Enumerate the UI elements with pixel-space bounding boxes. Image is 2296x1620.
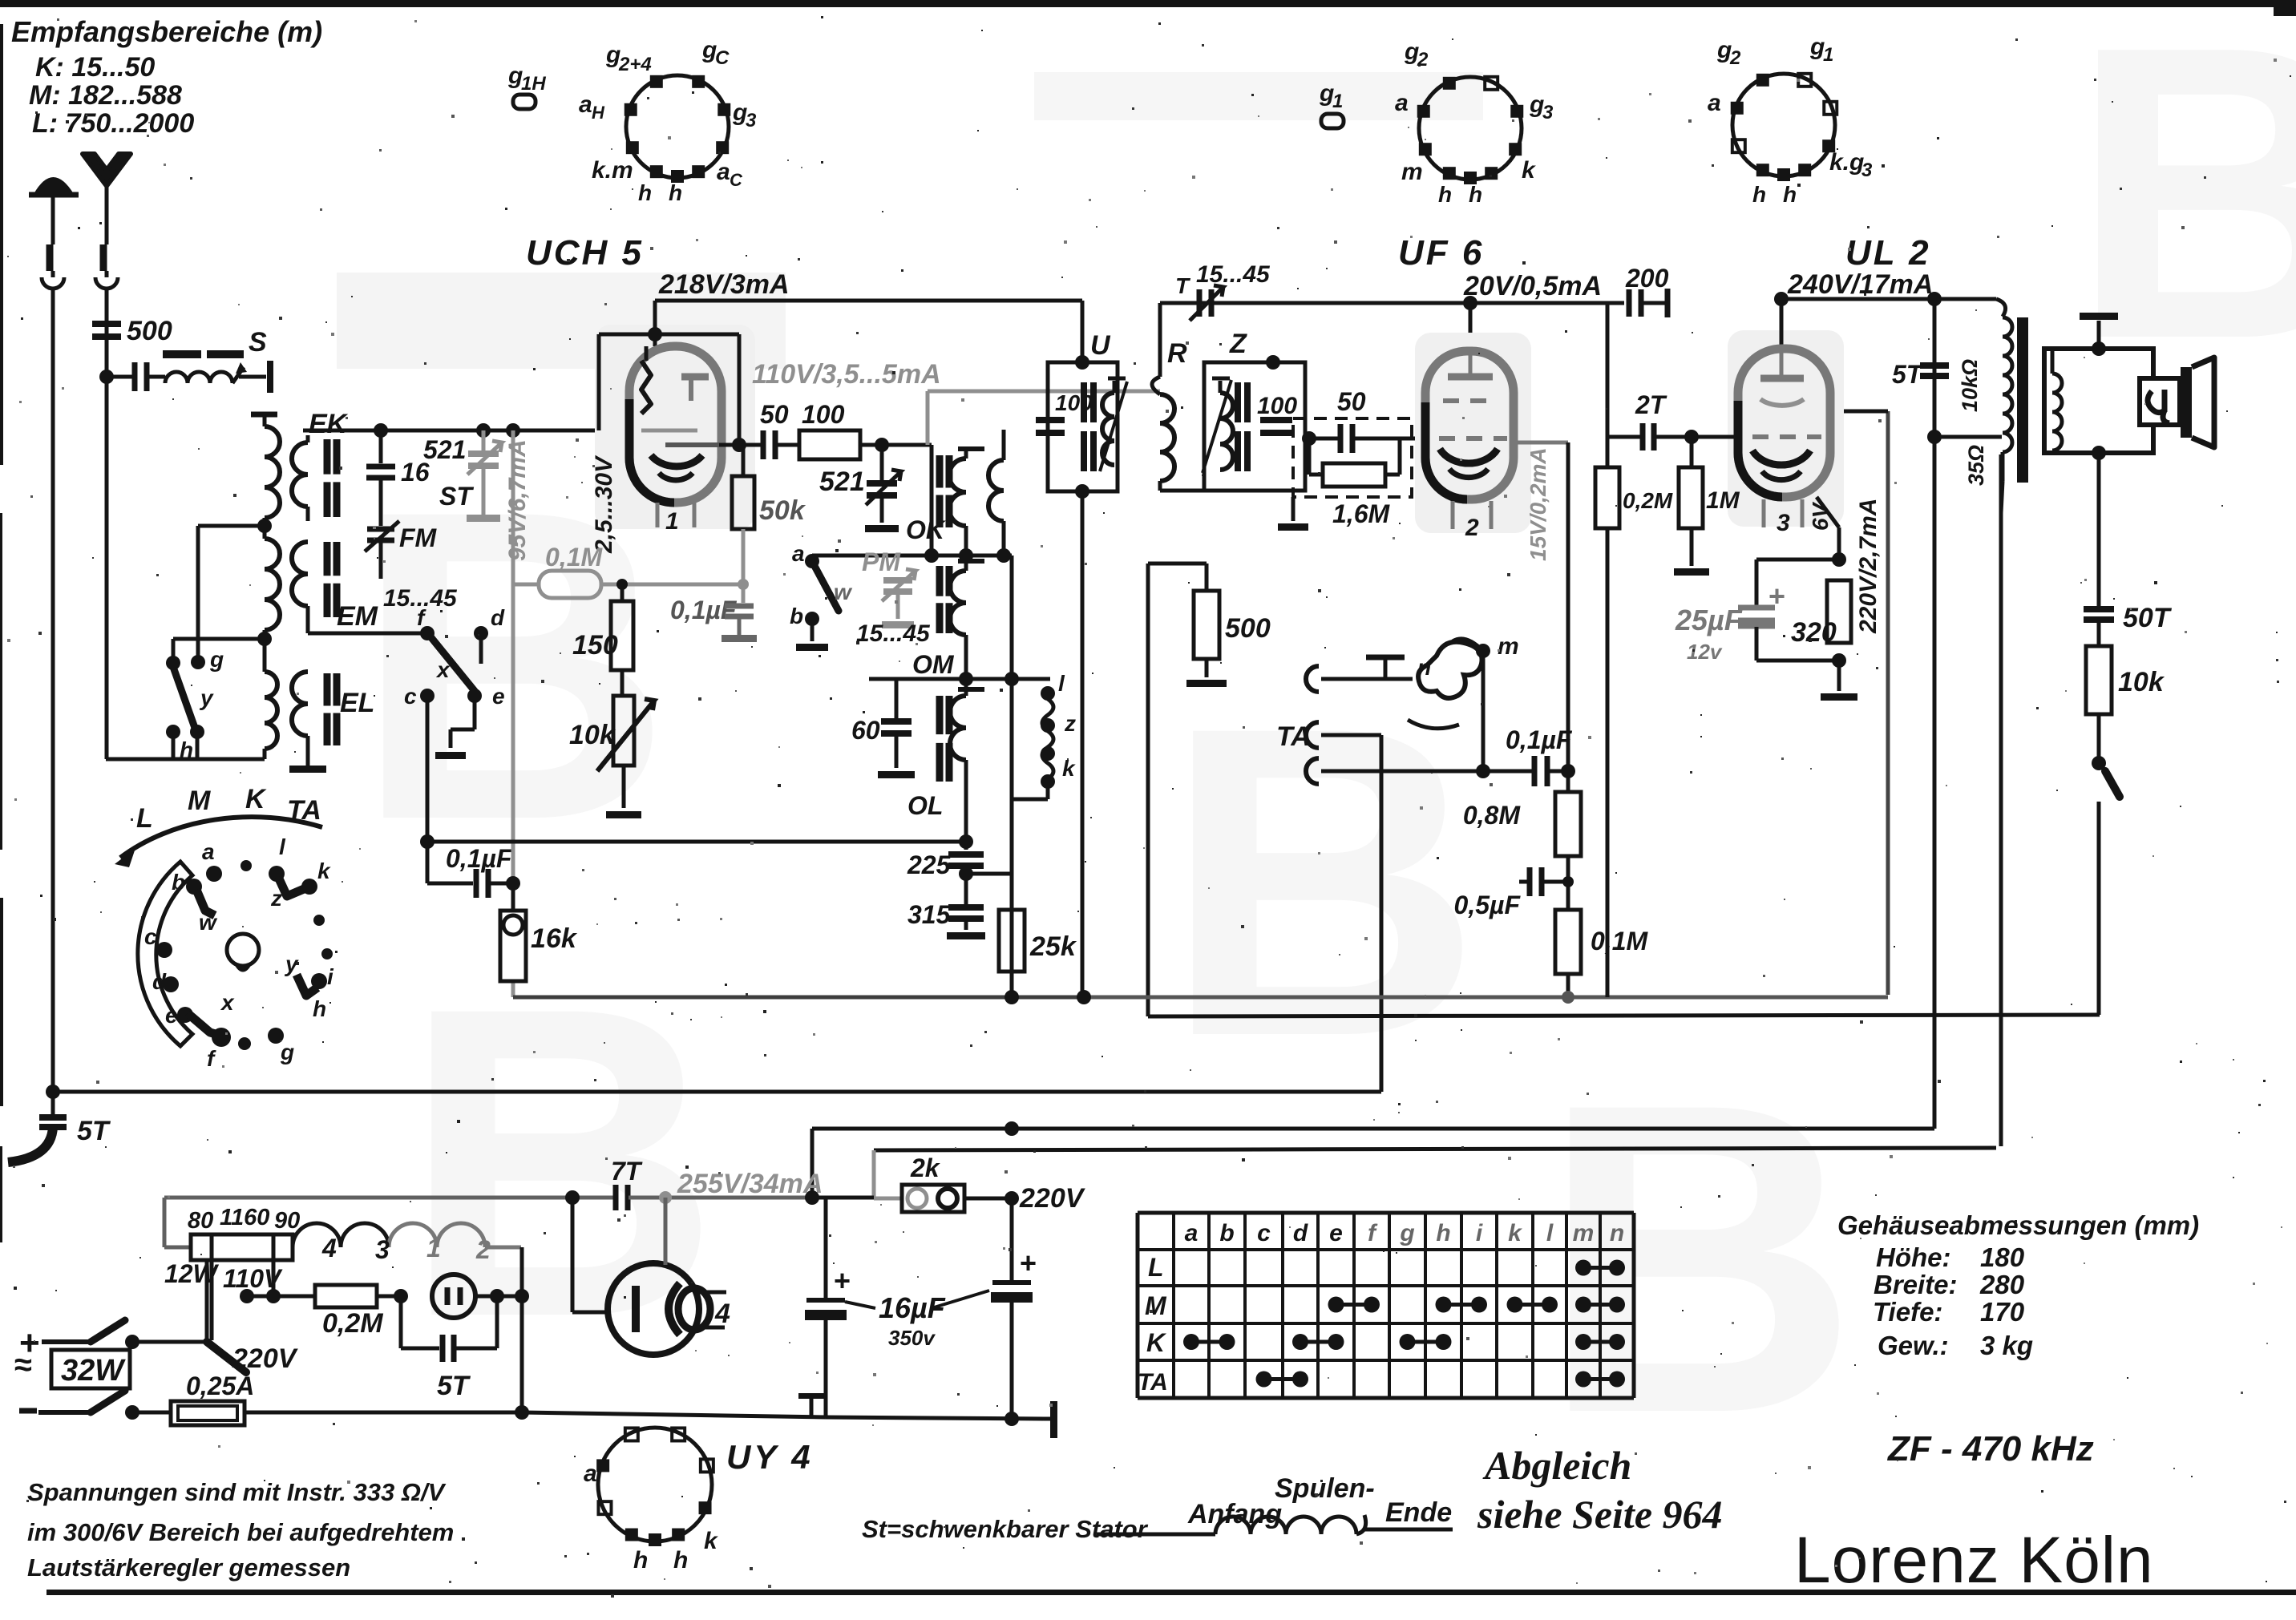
svg-text:k: k xyxy=(317,858,331,883)
svg-text:EL: EL xyxy=(340,688,374,718)
svg-text:b: b xyxy=(1219,1220,1234,1246)
svg-text:a: a xyxy=(717,159,730,185)
svg-text:UY 4: UY 4 xyxy=(726,1438,814,1476)
svg-text:95V/6,7mA: 95V/6,7mA xyxy=(504,439,531,561)
svg-text:M: 182...588: M: 182...588 xyxy=(29,80,182,111)
svg-text:Spannungen sind mit Instr.: Spannungen sind mit Instr. 333 Ω/V xyxy=(27,1478,447,1506)
svg-text:ZF - 470 kHz: ZF - 470 kHz xyxy=(1886,1429,2094,1469)
svg-text:3: 3 xyxy=(375,1235,390,1264)
svg-text:H: H xyxy=(592,103,605,123)
svg-text:m: m xyxy=(1573,1220,1595,1246)
svg-text:15V/0,2mA: 15V/0,2mA xyxy=(1526,447,1550,561)
svg-text:12v: 12v xyxy=(1687,640,1723,664)
svg-text:0,2M: 0,2M xyxy=(322,1308,383,1339)
svg-text:K: K xyxy=(245,784,267,814)
svg-text:240V/17mA: 240V/17mA xyxy=(1787,269,1933,300)
svg-text:b: b xyxy=(172,870,185,895)
svg-text:h: h xyxy=(1436,1220,1450,1246)
svg-text:1: 1 xyxy=(426,1234,441,1262)
svg-text:5T: 5T xyxy=(77,1116,111,1146)
svg-text:B: B xyxy=(2070,0,2296,426)
svg-text:25k: 25k xyxy=(1029,931,1077,962)
svg-text:B: B xyxy=(402,915,720,1408)
svg-text:k: k xyxy=(1508,1220,1522,1246)
svg-text:z: z xyxy=(1064,711,1076,736)
svg-text:a: a xyxy=(1708,90,1721,116)
svg-text:c: c xyxy=(1257,1220,1271,1246)
svg-text:U: U xyxy=(1090,330,1111,361)
svg-text:255V/34mA: 255V/34mA xyxy=(677,1169,823,1199)
svg-text:110V/3,5...5mA: 110V/3,5...5mA xyxy=(752,359,941,390)
svg-text:w: w xyxy=(834,580,853,604)
svg-text:x: x xyxy=(435,657,451,682)
svg-text:220V: 220V xyxy=(1019,1183,1086,1214)
svg-text:M: M xyxy=(1145,1291,1167,1320)
svg-text:EM: EM xyxy=(337,601,378,632)
svg-text:1160: 1160 xyxy=(220,1205,269,1230)
svg-text:T: T xyxy=(1175,273,1191,298)
svg-text:10k: 10k xyxy=(569,720,616,750)
svg-text:m: m xyxy=(1498,633,1519,660)
svg-text:h: h xyxy=(669,180,682,205)
svg-text:521: 521 xyxy=(423,435,466,464)
svg-text:80: 80 xyxy=(188,1208,213,1234)
svg-text:EK: EK xyxy=(309,409,349,439)
svg-text:a: a xyxy=(584,1460,597,1487)
svg-text:h: h xyxy=(1438,182,1452,207)
svg-text:g: g xyxy=(209,647,224,672)
svg-text:g: g xyxy=(1399,1220,1414,1246)
svg-text:218V/3mA: 218V/3mA xyxy=(658,269,790,300)
svg-text:c: c xyxy=(404,684,417,709)
svg-text:Abgleich: Abgleich xyxy=(1482,1443,1631,1488)
svg-text:0,1µF: 0,1µF xyxy=(446,844,513,873)
svg-text:h: h xyxy=(633,1547,648,1574)
svg-text:25µF: 25µF xyxy=(1675,604,1743,636)
svg-text:L: L xyxy=(136,803,153,834)
svg-text:3: 3 xyxy=(746,110,757,131)
svg-text:1: 1 xyxy=(1332,91,1343,112)
svg-text:C: C xyxy=(730,170,743,190)
svg-text:2k: 2k xyxy=(910,1153,941,1182)
svg-text:TA: TA xyxy=(287,795,321,826)
svg-text:Tiefe:: Tiefe: xyxy=(1873,1297,1942,1327)
svg-text:k: k xyxy=(1522,157,1536,184)
svg-text:2: 2 xyxy=(1465,515,1479,541)
svg-text:e: e xyxy=(165,1003,178,1028)
svg-text:170: 170 xyxy=(1980,1297,2025,1327)
svg-text:50: 50 xyxy=(760,400,789,429)
svg-text:ST: ST xyxy=(439,482,474,511)
svg-text:0,1µF: 0,1µF xyxy=(1506,725,1573,754)
svg-text:k: k xyxy=(704,1528,718,1554)
svg-text:100: 100 xyxy=(1257,393,1297,419)
svg-text:FM: FM xyxy=(399,523,438,552)
svg-text:2+4: 2+4 xyxy=(618,54,652,75)
svg-text:4: 4 xyxy=(714,1299,730,1329)
svg-text:L: 750...2000: L: 750...2000 xyxy=(32,108,194,139)
svg-text:15...45: 15...45 xyxy=(1196,261,1271,288)
svg-text:7T: 7T xyxy=(611,1157,643,1186)
svg-text:280: 280 xyxy=(1979,1270,2025,1299)
svg-text:k: k xyxy=(1062,756,1076,781)
svg-text:K: K xyxy=(1146,1328,1167,1357)
svg-text:2: 2 xyxy=(1417,49,1429,71)
svg-text:4: 4 xyxy=(321,1234,337,1262)
svg-text:0,8M: 0,8M xyxy=(1463,801,1521,830)
svg-text:w: w xyxy=(199,910,218,935)
svg-text:d: d xyxy=(491,605,505,630)
svg-text:OK: OK xyxy=(906,515,947,544)
svg-text:k.g: k.g xyxy=(1829,149,1864,176)
svg-text:60: 60 xyxy=(851,716,880,745)
svg-text:PM: PM xyxy=(862,547,901,576)
svg-text:12W: 12W xyxy=(164,1259,220,1288)
svg-text:1: 1 xyxy=(665,508,679,535)
svg-text:Gew.:: Gew.: xyxy=(1878,1331,1949,1360)
svg-text:m: m xyxy=(1401,159,1423,185)
svg-text:z: z xyxy=(270,886,282,911)
svg-text:35Ω: 35Ω xyxy=(1964,445,1988,486)
svg-text:l: l xyxy=(1546,1220,1554,1246)
svg-text:B: B xyxy=(1163,635,1481,1128)
svg-text:1,6M: 1,6M xyxy=(1332,499,1390,528)
svg-text:0,1M: 0,1M xyxy=(1591,927,1648,955)
svg-text:32W: 32W xyxy=(61,1354,126,1388)
svg-text:x: x xyxy=(220,990,235,1015)
svg-text:K: 15...50: K: 15...50 xyxy=(35,52,155,83)
svg-text:3 kg: 3 kg xyxy=(1980,1331,2033,1360)
svg-text:10kΩ: 10kΩ xyxy=(1958,359,1982,412)
svg-text:0,1M: 0,1M xyxy=(545,543,603,572)
svg-text:i: i xyxy=(1476,1220,1483,1246)
svg-text:2: 2 xyxy=(475,1235,491,1264)
svg-text:0,2M: 0,2M xyxy=(1623,488,1673,513)
svg-text:100: 100 xyxy=(1055,390,1093,415)
svg-text:0,25A: 0,25A xyxy=(186,1372,254,1400)
svg-text:UF 6: UF 6 xyxy=(1398,233,1484,273)
svg-text:1H: 1H xyxy=(521,73,546,95)
svg-text:TA: TA xyxy=(1138,1369,1168,1396)
svg-text:im 300/6V Bereich bei aufg: im 300/6V Bereich bei aufgedrehtem xyxy=(27,1518,454,1546)
svg-text:220V/2,7mA: 220V/2,7mA xyxy=(1855,499,1882,634)
svg-text:l: l xyxy=(1058,671,1065,696)
svg-text:C: C xyxy=(715,47,730,69)
svg-text:5T: 5T xyxy=(437,1371,471,1401)
svg-text:e: e xyxy=(1329,1220,1343,1246)
svg-text:a: a xyxy=(1395,90,1409,116)
svg-text:UCH 5: UCH 5 xyxy=(526,233,644,273)
svg-text:20V/0,5mA: 20V/0,5mA xyxy=(1463,271,1602,301)
svg-text:200: 200 xyxy=(1625,264,1669,293)
svg-text:16k: 16k xyxy=(531,923,578,954)
svg-text:y: y xyxy=(199,685,214,710)
svg-text:a: a xyxy=(1185,1220,1199,1246)
svg-text:500: 500 xyxy=(1225,613,1271,644)
svg-text:UL 2: UL 2 xyxy=(1845,233,1931,273)
svg-text:Spulen-: Spulen- xyxy=(1275,1473,1375,1504)
svg-text:+: + xyxy=(834,1264,851,1297)
svg-text:h: h xyxy=(638,180,652,205)
svg-text:Ende: Ende xyxy=(1385,1497,1452,1528)
svg-text:50T: 50T xyxy=(2123,603,2173,633)
svg-text:B: B xyxy=(1540,1012,1858,1505)
svg-text:10k: 10k xyxy=(2118,667,2165,697)
svg-text:d: d xyxy=(152,969,167,994)
svg-text:+: + xyxy=(1020,1246,1037,1279)
svg-text:Lautstärkeregler gemessen: Lautstärkeregler gemessen xyxy=(27,1553,350,1582)
svg-text:Lorenz Köln: Lorenz Köln xyxy=(1794,1524,2154,1597)
svg-text:c: c xyxy=(144,924,157,949)
svg-text:350v: 350v xyxy=(888,1326,936,1350)
svg-text:220V: 220V xyxy=(232,1343,299,1374)
svg-text:150: 150 xyxy=(572,630,618,661)
svg-text:M: M xyxy=(188,786,211,816)
svg-text:+: + xyxy=(1768,580,1785,612)
svg-text:siehe Seite 964: siehe Seite 964 xyxy=(1477,1492,1723,1537)
svg-text:90: 90 xyxy=(274,1208,300,1234)
svg-text:a: a xyxy=(202,839,215,864)
svg-text:i: i xyxy=(327,964,334,989)
svg-text:Höhe:: Höhe: xyxy=(1876,1242,1951,1272)
svg-text:l: l xyxy=(279,834,286,859)
svg-text:k.m: k.m xyxy=(592,157,633,184)
svg-text:h: h xyxy=(1752,182,1766,207)
svg-text:h: h xyxy=(180,737,193,762)
svg-text:e: e xyxy=(492,684,505,709)
svg-text:Gehäuseabmessungen (mm): Gehäuseabmessungen (mm) xyxy=(1837,1210,2199,1240)
svg-text:1: 1 xyxy=(1823,44,1833,66)
svg-text:b: b xyxy=(790,604,803,628)
svg-text:OM: OM xyxy=(912,650,955,679)
svg-text:0,5µF: 0,5µF xyxy=(1454,891,1522,919)
svg-text:h: h xyxy=(1783,182,1797,207)
svg-text:5T: 5T xyxy=(1892,360,1924,389)
svg-text:100: 100 xyxy=(802,400,845,429)
svg-text:n: n xyxy=(1610,1220,1624,1246)
svg-text:2,5...30V: 2,5...30V xyxy=(591,454,617,554)
svg-text:a: a xyxy=(792,541,805,566)
svg-text:50: 50 xyxy=(1337,387,1366,416)
svg-text:50k: 50k xyxy=(759,495,806,526)
svg-text:R: R xyxy=(1167,338,1187,369)
svg-text:2: 2 xyxy=(1729,47,1741,69)
svg-text:315: 315 xyxy=(907,900,952,929)
svg-text:h: h xyxy=(673,1547,688,1574)
svg-text:n: n xyxy=(1417,655,1431,680)
svg-text:a: a xyxy=(579,91,592,118)
svg-text:500: 500 xyxy=(127,316,172,346)
svg-text:OL: OL xyxy=(907,791,943,820)
svg-text:320: 320 xyxy=(1791,617,1837,648)
svg-text:Breite:: Breite: xyxy=(1874,1270,1958,1299)
svg-text:St=schwenkbarer Stator: St=schwenkbarer Stator xyxy=(862,1515,1149,1543)
svg-text:TA: TA xyxy=(1276,721,1311,752)
svg-text:S: S xyxy=(249,327,267,358)
svg-text:225: 225 xyxy=(907,850,952,879)
svg-text:3: 3 xyxy=(1542,102,1554,123)
svg-text:g: g xyxy=(280,1040,294,1065)
svg-text:0,1µF: 0,1µF xyxy=(670,596,738,624)
svg-text:h: h xyxy=(1469,182,1482,207)
svg-text:d: d xyxy=(1293,1220,1308,1246)
svg-text:L: L xyxy=(1148,1253,1164,1282)
svg-text:Z: Z xyxy=(1229,329,1247,359)
svg-text:15...45: 15...45 xyxy=(856,620,931,647)
svg-text:110V: 110V xyxy=(223,1264,283,1293)
svg-text:1M: 1M xyxy=(1706,487,1740,514)
svg-text:3: 3 xyxy=(1777,510,1790,536)
svg-text:2T: 2T xyxy=(1635,390,1667,419)
svg-text:3: 3 xyxy=(1861,160,1873,181)
svg-text:180: 180 xyxy=(1980,1242,2025,1272)
svg-text:521: 521 xyxy=(819,467,865,497)
svg-text:≈: ≈ xyxy=(14,1347,32,1383)
svg-text:h: h xyxy=(313,996,326,1021)
svg-text:Anfang: Anfang xyxy=(1187,1499,1282,1529)
